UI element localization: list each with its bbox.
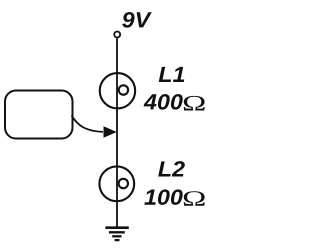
ground: [105, 228, 128, 240]
label L2: [158, 161, 185, 176]
label 400 value: [144, 94, 183, 110]
callout box: [5, 91, 73, 139]
label 9V: [122, 12, 152, 28]
label ohm symbol of L1: [184, 96, 205, 111]
node 9V terminal: [114, 32, 120, 38]
label 100 value: [144, 189, 182, 205]
wire 9V to L1: [116, 38, 118, 73]
lamp L2: [99, 166, 134, 201]
wire L2 to ground: [116, 202, 118, 227]
label L1: [159, 67, 185, 82]
arrow to wire: [72, 116, 117, 138]
wire L1 to L2: [116, 109, 118, 167]
label ohm symbol of L2: [184, 191, 205, 206]
lamp L1: [100, 73, 135, 108]
